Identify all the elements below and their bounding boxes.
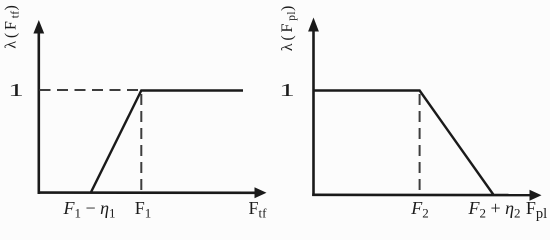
svg-text:λ(Ftf): λ(Ftf) bbox=[3, 2, 22, 48]
svg-text:1: 1 bbox=[8, 80, 24, 100]
svg-text:F1 − η1: F1 − η1 bbox=[62, 198, 115, 221]
svg-text:1: 1 bbox=[279, 80, 295, 100]
svg-text:F2 + η2: F2 + η2 bbox=[467, 198, 520, 221]
svg-text:λ(Fpl): λ(Fpl) bbox=[279, 3, 298, 51]
